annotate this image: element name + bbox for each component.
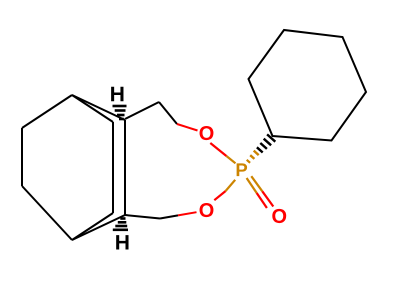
atom label O1: [200, 126, 214, 140]
atom label H top: [111, 87, 123, 101]
bond C4-C3: [72, 215, 125, 240]
bond O1-P (orange half): [226, 156, 235, 163]
hashed wedge P-Cipso (orange dashes near P): [247, 151, 259, 163]
bridge bond C8-C4: [72, 213, 113, 240]
hashed wedge C2-H (top): [113, 106, 127, 119]
bridge bond C1-C7: [72, 95, 113, 122]
bridge bond C7-C8: [112, 122, 114, 213]
bond C2-CH2a: [125, 102, 159, 119]
bond O2-P (red half): [214, 191, 225, 200]
atom label O2: [200, 203, 214, 217]
bond C1-C5: [22, 95, 72, 128]
double bond P=O3 line 1 (red half): [257, 193, 267, 208]
atom label P: [237, 163, 247, 176]
atom label O3: [272, 209, 286, 223]
bond CH2a-O1 (red half): [177, 124, 198, 131]
bicyclooctane fusion bond C2-C3: [124, 120, 126, 215]
bond CH2a-O1 (black half): [159, 102, 177, 124]
bond C5-C6: [21, 128, 23, 186]
bond C2-C1: [72, 95, 125, 120]
double bond P=O3 line 2 (red half): [262, 191, 273, 206]
bond O2-P (orange half): [226, 180, 236, 191]
double bond P=O3 line 2 (orange half): [251, 176, 262, 191]
bond CH2b-O2 (black half): [160, 215, 178, 218]
bond C3-CH2b: [125, 215, 160, 219]
atom label H bottom: [116, 235, 128, 249]
double bond P=O3 line 1 (orange half): [247, 178, 257, 193]
bond C6-C4: [22, 186, 72, 240]
cyclohexyl ring on P: [249, 30, 367, 141]
bond O1-P (red half): [210, 143, 226, 156]
hashed wedge C3-H (bottom): [113, 219, 128, 230]
hashed wedge P-Cipso (black dashes near C): [257, 134, 275, 152]
bond CH2b-O2 (red half): [178, 212, 197, 215]
